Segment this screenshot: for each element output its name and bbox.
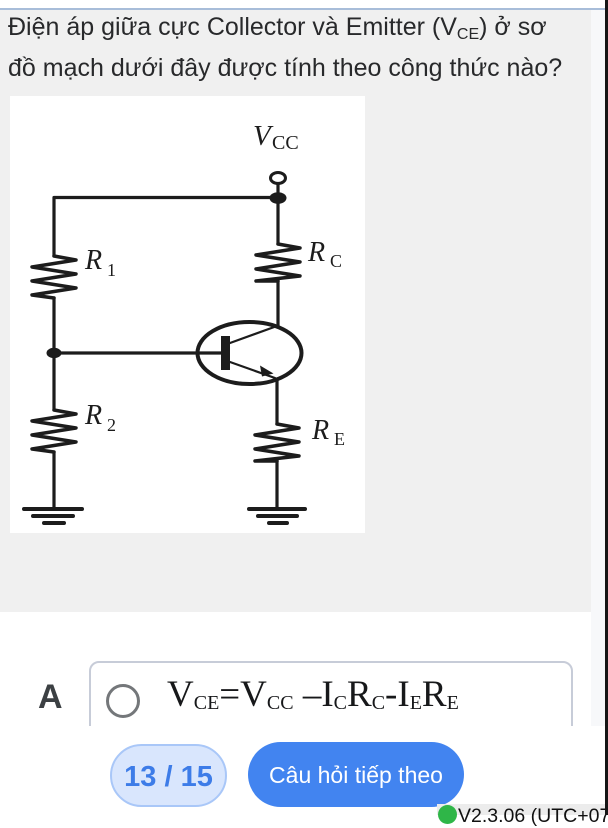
wire Re to ground — [275, 461, 278, 509]
Vcc label — [253, 120, 299, 154]
bottom fixed overlay — [0, 726, 605, 815]
green status dot — [438, 805, 457, 824]
R1 label — [84, 245, 116, 280]
wire Rc to collector — [276, 281, 279, 327]
resistor R2 — [32, 410, 76, 452]
base wire — [54, 351, 222, 354]
question text — [8, 7, 596, 89]
emitter diagonal — [230, 362, 275, 378]
radio button — [106, 684, 140, 718]
ground right — [249, 507, 305, 511]
svg-text:E: E — [334, 429, 345, 449]
circuit figure white box — [10, 96, 365, 533]
svg-text:R: R — [311, 415, 329, 446]
Vcc terminal — [271, 173, 286, 184]
ground left — [24, 507, 82, 511]
transistor Q1 circle — [198, 322, 302, 384]
svg-text:CC: CC — [272, 132, 299, 154]
top wire — [54, 198, 278, 257]
progress pill 13/15 — [110, 744, 227, 807]
svg-text:R: R — [84, 400, 102, 431]
node dot B — [47, 348, 62, 358]
R2 label — [84, 400, 116, 435]
wire emitter to Re — [275, 379, 278, 424]
version text — [458, 805, 608, 828]
wire R2 to ground — [52, 452, 55, 509]
svg-text:2: 2 — [107, 415, 116, 435]
junction node dot — [270, 192, 287, 204]
top blue divider line — [0, 8, 605, 10]
formula V_CE = V_CC - I_C R_C - I_E R_E — [167, 671, 459, 727]
next question button — [248, 742, 464, 807]
svg-text:R: R — [84, 245, 102, 276]
Re label — [311, 415, 345, 449]
Rc label — [307, 237, 342, 271]
transistor base bar — [221, 336, 230, 370]
svg-text:R: R — [307, 237, 325, 268]
svg-text:V: V — [253, 120, 274, 152]
wire R1 to node to R2 — [52, 298, 55, 410]
svg-text:C: C — [330, 251, 342, 271]
resistor Rc — [256, 244, 300, 281]
footer version strip — [437, 804, 605, 815]
resistor R1 — [32, 256, 76, 298]
scrollbar track — [591, 10, 605, 726]
answer option A letter — [38, 680, 63, 714]
resistor Re — [255, 424, 299, 461]
question gray panel — [0, 10, 591, 612]
emitter arrowhead — [260, 366, 274, 377]
svg-text:1: 1 — [107, 260, 116, 280]
wire junction to Rc — [276, 198, 279, 244]
answer option A box — [89, 661, 573, 761]
right black border — [605, 0, 608, 815]
wire terminal to junction — [276, 184, 279, 193]
collector diagonal — [230, 326, 277, 343]
